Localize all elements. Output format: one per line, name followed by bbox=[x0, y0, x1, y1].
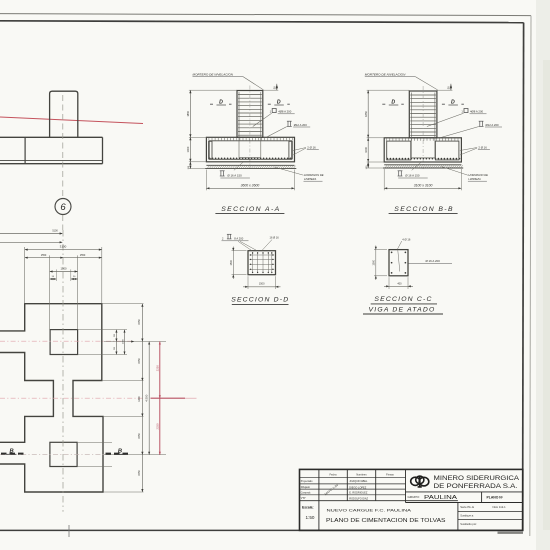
svg-text:GRUPO:: GRUPO: bbox=[408, 495, 420, 499]
svg-text:1: 1 bbox=[270, 110, 272, 114]
svg-text:1550: 1550 bbox=[138, 358, 141, 364]
svg-text:6: 6 bbox=[60, 202, 66, 213]
svg-text:4Ø8 A 200: 4Ø8 A 200 bbox=[470, 110, 484, 114]
svg-text:Serie PA -E: Serie PA -E bbox=[460, 505, 474, 509]
svg-text:RODOLFO DIAZ: RODOLFO DIAZ bbox=[349, 497, 368, 500]
svg-text:Sustituye a:: Sustituye a: bbox=[460, 514, 474, 518]
svg-text:D: D bbox=[219, 99, 223, 105]
svg-text:MORTERO DE NIVELACION: MORTERO DE NIVELACION bbox=[193, 72, 234, 76]
svg-text:1850: 1850 bbox=[186, 110, 190, 116]
svg-text:PAULINA: PAULINA bbox=[424, 495, 458, 501]
svg-text:DIEGO LOPEZ: DIEGO LOPEZ bbox=[349, 486, 366, 489]
svg-text:Proyectado: Proyectado bbox=[301, 480, 313, 483]
svg-text:1550: 1550 bbox=[80, 254, 86, 257]
svg-text:SECCION C-C: SECCION C-C bbox=[374, 296, 432, 303]
svg-text:50: 50 bbox=[73, 276, 76, 278]
svg-text:1500: 1500 bbox=[230, 259, 233, 265]
svg-text:16 Ø 16: 16 Ø 16 bbox=[270, 236, 280, 240]
svg-text:50: 50 bbox=[272, 86, 276, 89]
svg-text:Dibujado: Dibujado bbox=[301, 487, 311, 489]
svg-text:Núm 112-1: Núm 112-1 bbox=[493, 505, 507, 509]
svg-text:LIMPIEZA: LIMPIEZA bbox=[468, 177, 480, 181]
svg-text:500: 500 bbox=[114, 346, 116, 350]
svg-text:Ø12 A 200: Ø12 A 200 bbox=[294, 123, 308, 127]
svg-text:JOAQUIN ABEL: JOAQUIN ABEL bbox=[349, 480, 368, 483]
svg-text:4 Ø 16: 4 Ø 16 bbox=[402, 237, 411, 241]
svg-text:D: D bbox=[277, 99, 281, 105]
svg-text:MINERO SIDERURGICA: MINERO SIDERURGICA bbox=[434, 475, 520, 482]
svg-text:Ø 16 A 150: Ø 16 A 150 bbox=[405, 173, 420, 177]
svg-text:1550: 1550 bbox=[41, 254, 47, 257]
svg-text:DE PONFERRADA S.A.: DE PONFERRADA S.A. bbox=[434, 483, 518, 490]
svg-text:PLANO DE CIMENTACION DE TOLVAS: PLANO DE CIMENTACION DE TOLVAS bbox=[326, 518, 446, 524]
svg-text:D: D bbox=[391, 99, 395, 105]
svg-text:2 Ø 16: 2 Ø 16 bbox=[307, 145, 316, 149]
svg-text:LIMPIEZA: LIMPIEZA bbox=[304, 177, 316, 181]
svg-text:400: 400 bbox=[397, 282, 402, 285]
svg-text:HORMIGON DE: HORMIGON DE bbox=[304, 173, 324, 177]
svg-text:HORMIGON DE: HORMIGON DE bbox=[468, 173, 488, 177]
svg-text:50: 50 bbox=[52, 276, 55, 278]
svg-text:1000: 1000 bbox=[364, 146, 368, 152]
svg-text:Firmas: Firmas bbox=[386, 473, 394, 476]
svg-text:1: 1 bbox=[461, 110, 463, 114]
svg-text:5100: 5100 bbox=[52, 230, 58, 233]
svg-text:1000: 1000 bbox=[373, 259, 376, 265]
svg-text:VIGA DE ATADO: VIGA DE ATADO bbox=[369, 306, 436, 313]
svg-text:Escala:: Escala: bbox=[302, 506, 314, 510]
svg-text:4.500: 4.500 bbox=[145, 394, 149, 401]
svg-text:3100: 3100 bbox=[60, 245, 67, 249]
svg-text:Nombres: Nombres bbox=[356, 473, 367, 476]
svg-text:1000: 1000 bbox=[122, 338, 124, 344]
svg-text:1550: 1550 bbox=[138, 319, 141, 325]
svg-text:SECCION A-A: SECCION A-A bbox=[221, 206, 280, 213]
svg-text:D: D bbox=[451, 99, 455, 105]
svg-text:NUEVO CARGUE F.C. PAULINA: NUEVO CARGUE F.C. PAULINA bbox=[327, 507, 412, 512]
svg-text:8 A 200: 8 A 200 bbox=[234, 236, 243, 240]
svg-text:MAYO 1-84: MAYO 1-84 bbox=[324, 483, 340, 496]
svg-text:2: 2 bbox=[222, 237, 224, 240]
svg-text:4Ø8 A 200: 4Ø8 A 200 bbox=[278, 110, 292, 114]
svg-text:SECCION D-D: SECCION D-D bbox=[231, 297, 289, 304]
svg-text:1000: 1000 bbox=[186, 146, 190, 152]
svg-text:E. RODRIGUEZ: E. RODRIGUEZ bbox=[349, 491, 368, 494]
svg-text:2250: 2250 bbox=[155, 423, 159, 429]
svg-text:Comprob.: Comprob. bbox=[301, 491, 311, 494]
svg-text:1850: 1850 bbox=[364, 111, 368, 117]
svg-text:1400: 1400 bbox=[138, 396, 141, 402]
svg-text:3100 x 3100: 3100 x 3100 bbox=[414, 183, 433, 187]
svg-text:Ø 16 A 150: Ø 16 A 150 bbox=[227, 173, 242, 177]
svg-text:500: 500 bbox=[114, 333, 116, 337]
svg-text:1:50: 1:50 bbox=[306, 515, 315, 520]
svg-text:1500: 1500 bbox=[259, 283, 265, 286]
svg-text:V°B°: V°B° bbox=[301, 498, 306, 500]
svg-text:Sustituido por:: Sustituido por: bbox=[460, 522, 477, 526]
svg-text:2250: 2250 bbox=[155, 365, 159, 371]
svg-text:1500: 1500 bbox=[61, 267, 67, 271]
svg-text:Fecha: Fecha bbox=[330, 473, 338, 476]
svg-text:Ø 16 A 200: Ø 16 A 200 bbox=[426, 259, 441, 263]
svg-text:MORTERO DE NIVELACION: MORTERO DE NIVELACION bbox=[365, 72, 406, 76]
svg-text:SECCION B-B: SECCION B-B bbox=[394, 206, 454, 213]
svg-text:50: 50 bbox=[447, 86, 451, 89]
svg-text:1550: 1550 bbox=[138, 470, 141, 476]
svg-text:3600 x 3600: 3600 x 3600 bbox=[241, 183, 260, 187]
svg-text:PLANO Nº: PLANO Nº bbox=[487, 496, 504, 500]
svg-text:1550: 1550 bbox=[138, 433, 141, 439]
svg-text:Ø12 A 200: Ø12 A 200 bbox=[486, 123, 500, 127]
svg-text:2 Ø 16: 2 Ø 16 bbox=[478, 145, 487, 149]
